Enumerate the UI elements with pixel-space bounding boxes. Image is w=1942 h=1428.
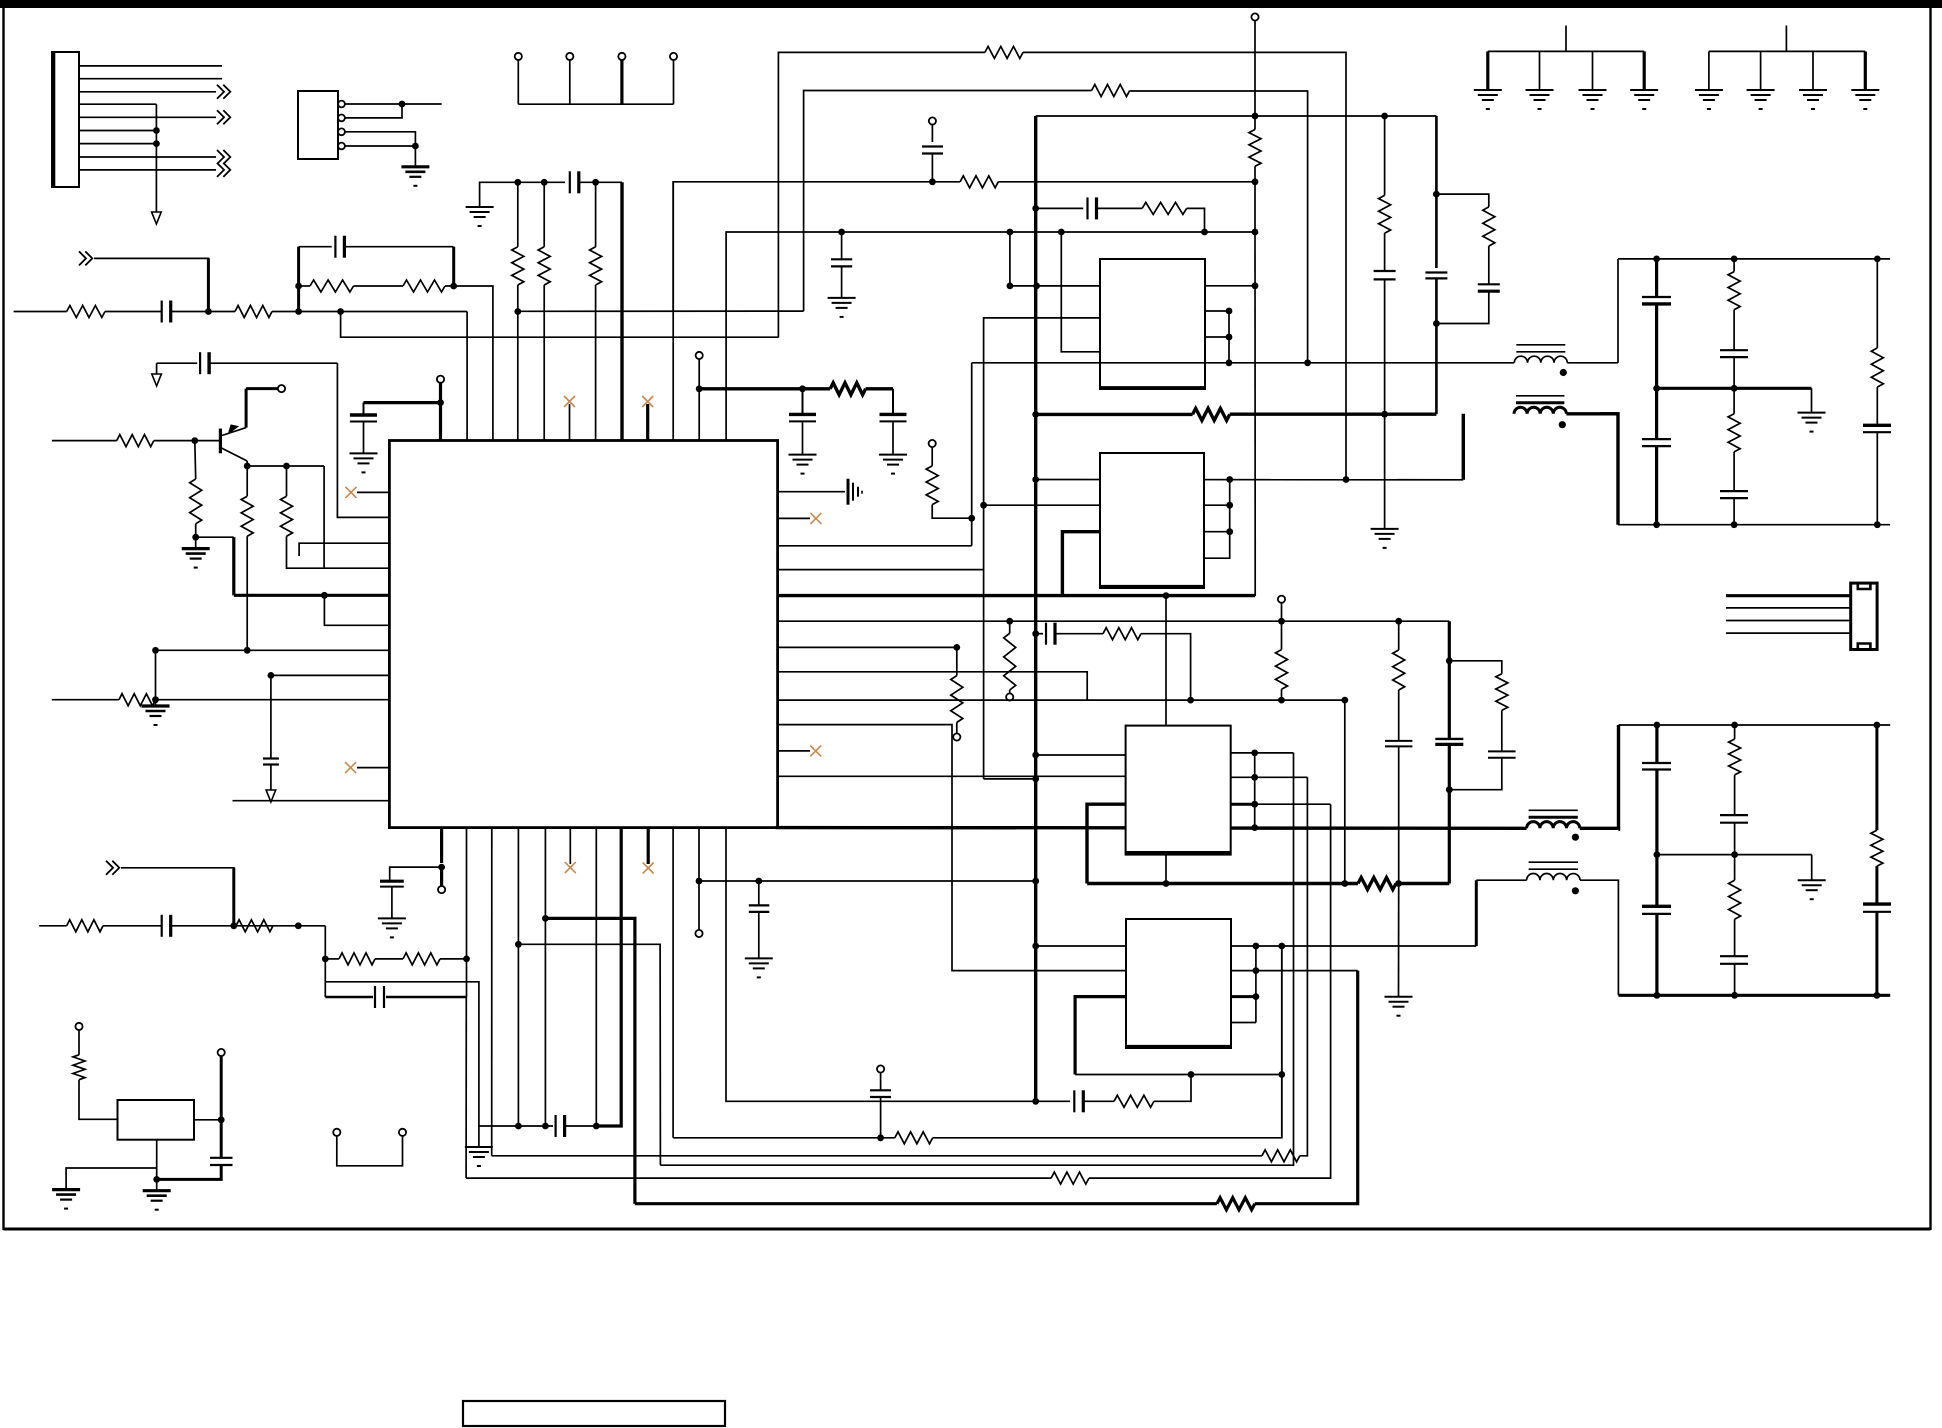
jumper JP1 (333, 1129, 340, 1136)
wire J1 pin7 (79, 143, 156, 145)
arrow down y363 (156, 363, 158, 374)
no-connect pin647 (646, 404, 649, 441)
junction U5 rpin3 (1253, 993, 1260, 1000)
arrow out pin9 (217, 163, 230, 177)
junction loop1-b (1278, 943, 1285, 950)
wire U2 rpin2 (1205, 310, 1229, 312)
wire W2 (804, 91, 1092, 312)
wire RO2 bottom bus (1618, 994, 1890, 997)
junction IN2-c (322, 956, 329, 963)
junction Wd-a (1226, 359, 1233, 366)
junction y1074-a (1188, 1071, 1195, 1078)
wire VR gnd mid (156, 1140, 158, 1191)
wire cap441 drop (363, 403, 365, 415)
wire pinB570 (569, 828, 571, 864)
capacitor C7 (922, 145, 943, 147)
wire J3 pin2 (345, 104, 402, 118)
resistor R2 (235, 306, 272, 318)
wire R11 bot (287, 536, 325, 568)
test point TP2 (566, 53, 573, 60)
wire J1 pin6 (79, 130, 156, 132)
wire left pin699 b (156, 699, 390, 701)
junction J1-b (153, 140, 160, 147)
wire loop2b run (660, 1164, 1180, 1166)
capacitor C3 (569, 171, 571, 193)
wire VR out (194, 1119, 221, 1121)
wire y982 link (325, 982, 479, 1126)
wire R17 bot (932, 505, 972, 519)
junction x1256-c (1252, 229, 1259, 236)
capacitor C26 (749, 904, 770, 906)
ground C10 (879, 454, 907, 456)
resistor R6 (538, 247, 550, 285)
resistor R29 (1871, 830, 1883, 866)
wire U4 rchain (1254, 753, 1256, 828)
wire colC2 bot (1875, 912, 1878, 996)
ground Q1 (182, 547, 210, 550)
capacitor C34 (1374, 270, 1396, 272)
wire pinR776 (778, 775, 1126, 777)
resistor R44 (1393, 650, 1405, 690)
junction pinB545 t (542, 915, 549, 922)
junction VR gnd (153, 1176, 160, 1183)
wire loop3 run (635, 1202, 1217, 1205)
junction y286-b (1033, 283, 1040, 290)
resistor R20 (1142, 202, 1187, 214)
wire x1449 thick (1448, 621, 1451, 739)
wire y1101 rc (1036, 1100, 1070, 1102)
wire RO1 top bus (1618, 258, 1890, 260)
junction bus182-a (514, 179, 521, 186)
junction IN2-a (230, 922, 237, 929)
wire U3 rpin4 (1204, 480, 1230, 559)
wire RC top branch b (344, 246, 453, 248)
junction IN1-c (337, 308, 344, 315)
junction y414-a (1032, 411, 1039, 418)
wire x1035 thick (1034, 116, 1037, 208)
wire colB top (1733, 259, 1735, 272)
wire pinB621 (595, 828, 621, 1126)
wire pinB596 (595, 828, 597, 1126)
wire loop4 run (466, 1177, 1051, 1179)
capacitor C21 (1720, 955, 1748, 957)
arrow out pin5 (217, 110, 230, 124)
wire colB2 top (1734, 725, 1736, 739)
no-connect pin569 (569, 404, 571, 441)
border frame bottom (4, 1228, 1931, 1231)
wire U5 pin3 thick (1075, 997, 1126, 1075)
arrow in IN1 (79, 251, 92, 265)
wire Q1 collector (245, 389, 248, 428)
wire RC loop bot (1449, 758, 1502, 790)
junction colC bot (1874, 521, 1881, 528)
wire gnd bus 1 (1488, 50, 1644, 52)
wire pinB673 (672, 828, 674, 1138)
ground cluster1 a (1474, 89, 1502, 91)
wire gnd drop 2b (1760, 51, 1762, 90)
wire J1 pin4 (79, 103, 156, 105)
transformer T3 (1527, 822, 1580, 829)
wire U5 rpin1 (1231, 945, 1476, 947)
junction U5 rpin1 (1253, 943, 1260, 950)
junction x1436-a (1433, 191, 1440, 198)
wire W3 cap stub2 (931, 154, 933, 182)
wire gnd drop 2d (1864, 51, 1867, 90)
ground cluster1 d (1630, 89, 1658, 91)
ground C26 (745, 957, 773, 959)
wire cap893 drop2 (892, 421, 894, 454)
wire Rdiv2 top (543, 182, 545, 247)
resistor R18 (1004, 633, 1016, 690)
wire pinB699 (698, 828, 700, 881)
capacitor C25 (870, 1089, 891, 1091)
wire x1398 lower (1398, 884, 1400, 997)
connector J2 (1851, 583, 1877, 649)
wire cap441b row (390, 867, 442, 881)
wire pin543 stub (299, 543, 389, 556)
junction bus883-d (1395, 880, 1402, 887)
capacitor C4 (199, 352, 201, 374)
wire x1281 stub (1281, 603, 1283, 650)
capacitor C36 (1435, 738, 1463, 740)
wire loop2b run b (1180, 753, 1294, 1165)
transformer T1 (1514, 356, 1567, 363)
wire RO1 bottom bus (1618, 524, 1890, 526)
wire cap441b drop (391, 887, 393, 919)
resistor R17 (926, 466, 938, 505)
junction y286-a (1007, 283, 1014, 290)
wire RO2 gnd stub (1811, 855, 1813, 881)
wire RO1 bot left L (1600, 414, 1618, 525)
no-connect pin767 (357, 767, 389, 769)
wire pin517 vert (337, 363, 389, 517)
capacitor C10 (880, 413, 907, 416)
wire J2 pin4 (1726, 632, 1851, 634)
wire Wd y363 (972, 362, 1515, 364)
wire W3 c (998, 181, 1255, 183)
junction y621-b (1395, 618, 1402, 625)
wire RO1 left L (1617, 259, 1619, 363)
wire e-row corner (324, 466, 389, 568)
wire colC top (1876, 259, 1878, 348)
arrow out pin8 (217, 150, 230, 164)
junction y232-cap (838, 229, 845, 236)
wire x1255 corner (1254, 595, 1256, 597)
resistor R11 (281, 496, 293, 536)
phase dot T1 (1560, 369, 1567, 376)
wire x1398 chain c (1398, 746, 1400, 883)
resistor R31 (1051, 1172, 1089, 1184)
ground x1398 (1385, 996, 1413, 998)
wire U2 rpin3 (1205, 336, 1229, 338)
junction RO2-b (1731, 722, 1738, 729)
junction pin650-b (244, 647, 251, 654)
junction pin441 (437, 399, 444, 406)
junction x155-b (152, 696, 159, 703)
capacitor C2 (334, 236, 336, 258)
wire x1256 a (1254, 21, 1256, 130)
wire pinB441 (440, 828, 443, 863)
wire W1 b (1023, 52, 1346, 479)
wire x1384 top (1384, 116, 1386, 195)
wire VR in stub (78, 1030, 80, 1055)
wire y1126 b (565, 1125, 622, 1127)
wire RC loop top (1449, 661, 1502, 674)
border frame top (0, 0, 1942, 8)
resistor R35 (67, 920, 103, 932)
wire y363 row b (209, 362, 337, 364)
wire colB2 mid1 (1734, 775, 1736, 815)
wire Rb drop (194, 441, 197, 479)
junction loop1-a (1278, 1071, 1285, 1078)
wire Rdiv1 top (517, 182, 519, 247)
resistor R40 (73, 1055, 85, 1080)
wire cap233 drop (841, 232, 843, 259)
wire T2 out (1566, 412, 1618, 415)
wire y1074 row (1075, 1074, 1282, 1076)
test point TP1 (515, 53, 522, 60)
capacitor C22 (1863, 902, 1891, 905)
capacitor C37 (1488, 750, 1516, 752)
junction R18 top (1006, 618, 1013, 625)
wire y1101 rc c (1154, 1075, 1191, 1102)
wire J2 pin3 (1726, 620, 1851, 622)
junction Wd-b (1304, 359, 1311, 366)
junction y1101 (1032, 1098, 1039, 1105)
capacitor C5 (350, 413, 377, 416)
wire cap233 drop2 (841, 266, 843, 298)
wire Rb to thick (196, 536, 234, 538)
ground VR left (52, 1188, 80, 1191)
ground x155 (142, 704, 170, 707)
wire R18 bot (1009, 690, 1011, 693)
wire Q1 base b (154, 440, 219, 442)
resistor R28 (1729, 880, 1741, 919)
wire U4 snub b (1055, 633, 1103, 635)
terminal pinB699 (695, 930, 702, 937)
junction U2 rpin1 (1252, 282, 1259, 289)
wire RC res row c (445, 286, 493, 441)
wire gnd drop 1c (1592, 51, 1594, 90)
junction y116-a (1252, 113, 1259, 120)
wire gnd drop 2c (1812, 51, 1814, 90)
wire gnd drop 1b (1539, 51, 1541, 90)
wire y116 net (1036, 115, 1437, 117)
wire bus182 corner (620, 182, 623, 440)
wire cap758 drop2 (758, 912, 760, 959)
resistor R3 (310, 280, 354, 292)
wire x1436 bot (1435, 324, 1438, 415)
voltage regulator VR1 (118, 1100, 195, 1140)
wire x1398 chain b (1398, 690, 1400, 741)
junction RO2-c (1874, 722, 1881, 729)
wire Rdiv1 bot (517, 285, 519, 441)
wire x971 vert (971, 363, 973, 546)
wire cap758 drop (758, 881, 760, 905)
junction U3 rpin2 (1226, 502, 1233, 509)
junction U2 rpin3 (1226, 334, 1233, 341)
wire pin441 link (439, 383, 442, 441)
junction IN2-b (295, 922, 302, 929)
resistor R7 (590, 247, 602, 285)
title block (463, 1401, 725, 1426)
junction U4 rpin1 (1251, 750, 1258, 757)
capacitor C12 (1642, 296, 1671, 298)
wire U2 snub row (1036, 207, 1084, 209)
wire colB2 bot (1734, 964, 1736, 996)
wire IN2 link (121, 868, 234, 926)
junction RO2-a (1654, 722, 1661, 729)
ground cluster2 d (1851, 89, 1879, 91)
junction U3p1-b (1226, 476, 1233, 483)
wire colC mid (1876, 387, 1878, 425)
capacitor C9 (789, 413, 816, 416)
junction emitter (244, 463, 251, 470)
wire bus182 b (579, 181, 622, 183)
junction colB2 bot (1731, 992, 1738, 999)
resistor R8 (117, 435, 154, 447)
wire Q1 emitter (246, 461, 248, 466)
wire J3 gnd drop (414, 146, 416, 167)
wire colA mid (1655, 304, 1658, 439)
capacitor C11 (1086, 197, 1088, 219)
op-amp U3 (1100, 453, 1204, 588)
junction thick388 (696, 385, 703, 392)
junction W3-dot (929, 178, 936, 185)
resistor R46 (951, 676, 963, 723)
wire J1 shield drop (155, 104, 157, 212)
capacitor C20 (1720, 814, 1748, 816)
resistor R1 (67, 306, 105, 318)
wire pinB726 (726, 828, 1036, 1102)
wire R10 top (246, 466, 248, 496)
junction Rb (192, 534, 199, 541)
wire x1281 stub2 (1281, 689, 1283, 700)
junction x1449-b (1446, 786, 1453, 793)
op-amp U2 (1100, 259, 1205, 389)
wire Rb gnd stub (195, 537, 197, 548)
wire U2 snub c (1187, 208, 1205, 232)
wire loop1 run b (933, 945, 1282, 1138)
resistor R34 (895, 1132, 933, 1144)
junction Q1 base (191, 437, 198, 444)
junction J3-1 (399, 101, 406, 108)
wire reroute518 (518, 944, 660, 1165)
junction U3 bot (1163, 592, 1170, 599)
wire U3pin3 link (1062, 532, 1100, 596)
wire x155 drop (155, 650, 157, 706)
arrow down J1 shield (152, 212, 162, 224)
junction VR out (218, 1116, 225, 1123)
resistor R32 (1262, 1150, 1300, 1162)
wire IN1 main-d (272, 311, 467, 313)
phase dot T4 (1572, 887, 1579, 894)
connector J1 (52, 52, 79, 187)
wire J1 pin8 (79, 156, 216, 158)
terminal VR out (218, 1049, 225, 1056)
wire R17 stub (931, 447, 933, 466)
no-connect pinR518 (778, 517, 810, 519)
ground J3 (401, 165, 429, 168)
arrow in IN2 (106, 861, 119, 875)
wire x1384 mid (1384, 233, 1386, 271)
junction y1126-b (542, 1123, 549, 1130)
wire R18 link (1009, 621, 1011, 633)
resistor R24 (1871, 348, 1883, 387)
wire gnd bus 2 (1709, 50, 1865, 52)
wire IN2 rc left (324, 926, 326, 997)
wire colA bot (1655, 446, 1658, 525)
junction y1126-a (515, 1123, 522, 1130)
junction pin650-a (152, 647, 159, 654)
no-connect pin492L (357, 491, 389, 493)
wire x1384 down (1384, 414, 1386, 529)
junction colA bot (1653, 521, 1660, 528)
wire colA2 bot (1655, 914, 1658, 995)
phase dot T2 (1559, 421, 1566, 428)
capacitor C13 (1642, 438, 1671, 440)
wire U4 rpin3 (1231, 803, 1255, 806)
wire J1 pin9 (79, 169, 216, 171)
wire Rdiv2 bot (543, 285, 545, 441)
resistor R9 (190, 479, 202, 524)
wire RC side bot (1436, 291, 1488, 323)
junction U2 rpin2 (1226, 308, 1233, 315)
wire x1256 b (1254, 166, 1256, 232)
resistor R38 (403, 953, 440, 965)
wire pinR491 (778, 491, 845, 493)
wire x1256 c (1254, 232, 1256, 596)
junction colA2 mid (1654, 851, 1661, 858)
wire y232 jog (1010, 232, 1037, 286)
wire RC res row b (354, 285, 404, 287)
wire Q1 base a (52, 440, 117, 442)
wire W3 cap stub (931, 125, 933, 142)
junction pinB441 (438, 864, 445, 871)
wire y997 row b (386, 996, 467, 999)
wire RO2 top bus (1619, 724, 1891, 726)
wire pinB518 (517, 828, 519, 1126)
wire J3 pin3 (345, 132, 415, 146)
wire U3 thick bottom (1062, 594, 1255, 597)
junction U4p1 (1032, 752, 1039, 759)
junction U2snub (1201, 229, 1208, 236)
wire bus828 (776, 826, 1126, 830)
wire y232 e (1205, 231, 1256, 233)
wire left pin800 (233, 800, 390, 802)
junction J1-a (153, 127, 160, 134)
junction colB bot (1731, 521, 1738, 528)
wire cap802 drop2 (802, 421, 804, 454)
wire pinB545 (544, 828, 546, 1126)
arrow down C6 (266, 790, 276, 802)
wire pinB466 (466, 828, 468, 997)
wire y363 row (157, 362, 198, 364)
junction colA2 bot (1654, 992, 1661, 999)
wire U4 snub c (1141, 634, 1191, 700)
junction y699-a (1187, 697, 1194, 704)
capacitor C30 (1073, 1090, 1075, 1112)
op-amp U4 (1126, 726, 1231, 855)
resistor R42 (1379, 195, 1391, 233)
junction colB mid (1731, 385, 1738, 392)
junction y232-b (1007, 229, 1014, 236)
wire pinB648 (647, 828, 650, 864)
wire pinR671 (778, 672, 1087, 700)
junction x983-low (1032, 776, 1039, 783)
resistor R26 (1358, 878, 1396, 890)
wire J3 pin4 (345, 145, 415, 147)
